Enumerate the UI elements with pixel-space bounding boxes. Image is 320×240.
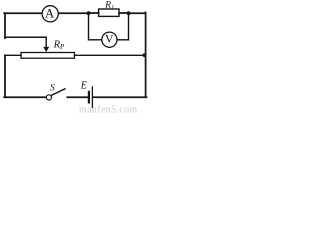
svg-text:S: S <box>50 83 55 93</box>
svg-text:A: A <box>45 5 55 20</box>
battery E <box>89 87 93 107</box>
svg-text:V: V <box>105 32 114 46</box>
svg-text:manfen5.com: manfen5.com <box>79 105 138 116</box>
wire left lower vertical <box>4 55 6 97</box>
wire top-left vertical <box>4 13 6 38</box>
wire rheostat right to right rail <box>75 54 146 56</box>
wire bottom left to switch <box>4 96 46 98</box>
rheostat Rp <box>21 53 75 59</box>
wire node to resistor <box>89 12 99 14</box>
wire ammeter to node <box>59 12 89 14</box>
resistor R1 <box>99 9 119 16</box>
wire voltmeter branch left horizontal <box>89 39 102 41</box>
node junction dot right of R1 <box>127 11 131 15</box>
svg-text:E: E <box>80 80 87 91</box>
wire voltmeter branch left vertical <box>88 13 90 40</box>
node junction dot on right rail <box>143 53 147 57</box>
wire battery to bottom-right corner <box>93 96 146 98</box>
switch S <box>46 89 65 100</box>
wire top horizontal to ammeter <box>4 12 41 14</box>
svg-text:RP: RP <box>53 39 65 51</box>
wire voltmeter branch right vertical <box>128 13 130 40</box>
wire node to top-right corner <box>129 12 146 14</box>
ammeter A <box>42 5 58 22</box>
wire right vertical <box>145 12 147 97</box>
node junction dot left of R1 <box>87 11 91 15</box>
rheostat wiper arrow <box>43 37 49 52</box>
svg-text:R1: R1 <box>104 1 114 12</box>
wire switch to battery <box>67 96 87 98</box>
wire left horizontal to wiper <box>5 36 46 38</box>
wire resistor to node <box>119 12 129 14</box>
wire voltmeter branch right horizontal <box>118 39 129 41</box>
wire rheostat left stub <box>5 54 21 56</box>
voltmeter V <box>102 32 117 48</box>
